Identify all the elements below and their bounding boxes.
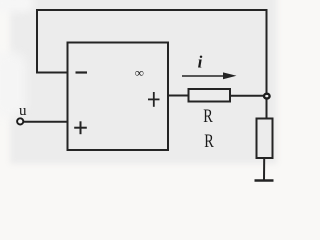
svg-text:i: i [198, 52, 203, 71]
svg-text:∞: ∞ [135, 66, 144, 80]
svg-text:R: R [203, 105, 213, 126]
svg-text:R: R [204, 130, 214, 151]
svg-text:u: u [19, 103, 27, 119]
